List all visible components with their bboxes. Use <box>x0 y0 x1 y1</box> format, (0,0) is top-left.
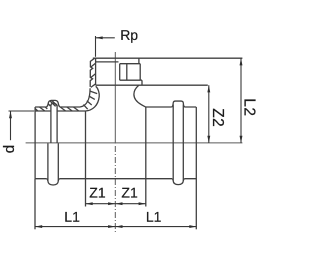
arrowhead Z1 left at centerline (points right) <box>108 202 115 205</box>
svg-text:Rp: Rp <box>120 27 138 43</box>
arrowhead d (points up) <box>9 111 12 118</box>
arrowhead L1 right at centerline (points left) <box>115 225 122 228</box>
wire body top outer left <box>35 106 80 108</box>
fillet band left hatch <box>83 91 97 109</box>
fillet band left inner <box>85 86 99 111</box>
svg-text:L1: L1 <box>146 209 162 225</box>
bead top-left inner arch <box>51 103 57 105</box>
left end face L1 extension <box>34 179 36 230</box>
bead top-left sectioned arch outer <box>47 100 60 107</box>
right end face + L1 extension <box>195 107 197 229</box>
vertical centerline upper solid segment <box>114 52 116 144</box>
branch left wall inner <box>95 58 97 85</box>
arrowhead Z1 left outer (points left) <box>86 202 93 205</box>
branch chamfer line <box>96 61 119 63</box>
d extension line <box>9 110 35 112</box>
body bottom line <box>35 178 196 180</box>
branch top face + L2 extension <box>93 57 243 59</box>
arrowhead L2 top (points up) <box>240 58 243 65</box>
vertical centerline lower dash-dot segment <box>114 146 116 233</box>
Rp leader <box>96 37 115 39</box>
svg-text:L2: L2 <box>241 98 258 116</box>
svg-text:Z1: Z1 <box>89 185 106 201</box>
hex top <box>120 63 141 65</box>
hex bottom <box>120 79 141 81</box>
right bead verticals <box>173 105 183 181</box>
svg-text:L1: L1 <box>64 209 80 225</box>
wire body left end face <box>34 107 36 179</box>
arrowhead Z1 right outer (points right) <box>139 202 146 205</box>
branch socket shoulder <box>96 84 116 86</box>
L1 dimension line right <box>115 226 196 228</box>
L2 dimension line <box>240 58 242 143</box>
Z1 dimension line right <box>115 203 146 205</box>
svg-text:Z2: Z2 <box>209 108 226 127</box>
flange bottom + Z2 extension <box>115 84 208 86</box>
arrowhead L1 right outer (points right) <box>189 225 196 228</box>
branch wall hatch <box>91 63 96 87</box>
socket stop line left + Z1 extension <box>85 111 87 207</box>
bottom-left bead bump <box>47 179 60 185</box>
Rp extension line <box>95 36 97 57</box>
hex mid edge <box>126 64 128 80</box>
svg-text:d: d <box>1 145 18 153</box>
svg-text:Z1: Z1 <box>121 185 138 201</box>
right stop line + Z1 extension <box>145 107 147 207</box>
wire body inner line left <box>35 110 85 112</box>
bead top-left hatch <box>48 101 57 107</box>
arrowhead L1 left at centerline (points right) <box>108 225 115 228</box>
flange step <box>140 80 142 85</box>
horizontal centerline <box>26 142 243 144</box>
d dimension line <box>10 111 12 140</box>
arrowhead Z2 top (points up) <box>207 85 210 92</box>
L1 dimension line left <box>35 226 115 228</box>
hex left edge <box>119 64 121 80</box>
hex right edge <box>139 64 141 80</box>
Z1 dimension line left <box>86 203 116 205</box>
rim right edge <box>138 58 140 64</box>
Z2 dimension line <box>208 85 210 143</box>
hatch ticks body left band after bead <box>60 107 78 111</box>
right bead arch <box>172 101 185 107</box>
fillet band left outer <box>80 88 90 107</box>
arrowhead L1 left outer (points left) <box>35 225 42 228</box>
arrowhead Rp leader (points left) <box>96 36 103 39</box>
neck S-curve right <box>134 85 146 107</box>
arrowhead Z1 right at centerline (points left) <box>115 202 122 205</box>
bottom-right bead bump <box>172 179 184 185</box>
bead top-left groove verticals <box>51 105 57 143</box>
branch left wall outer zigzag (thread) <box>90 58 94 87</box>
arrowhead Z2 bottom (points down) <box>207 136 210 143</box>
bottom-left bump verticals <box>48 143 58 181</box>
arrowhead L2 bottom (points down) <box>240 136 243 143</box>
hatch ticks body left band before bead <box>35 107 47 111</box>
body top right <box>146 106 196 108</box>
